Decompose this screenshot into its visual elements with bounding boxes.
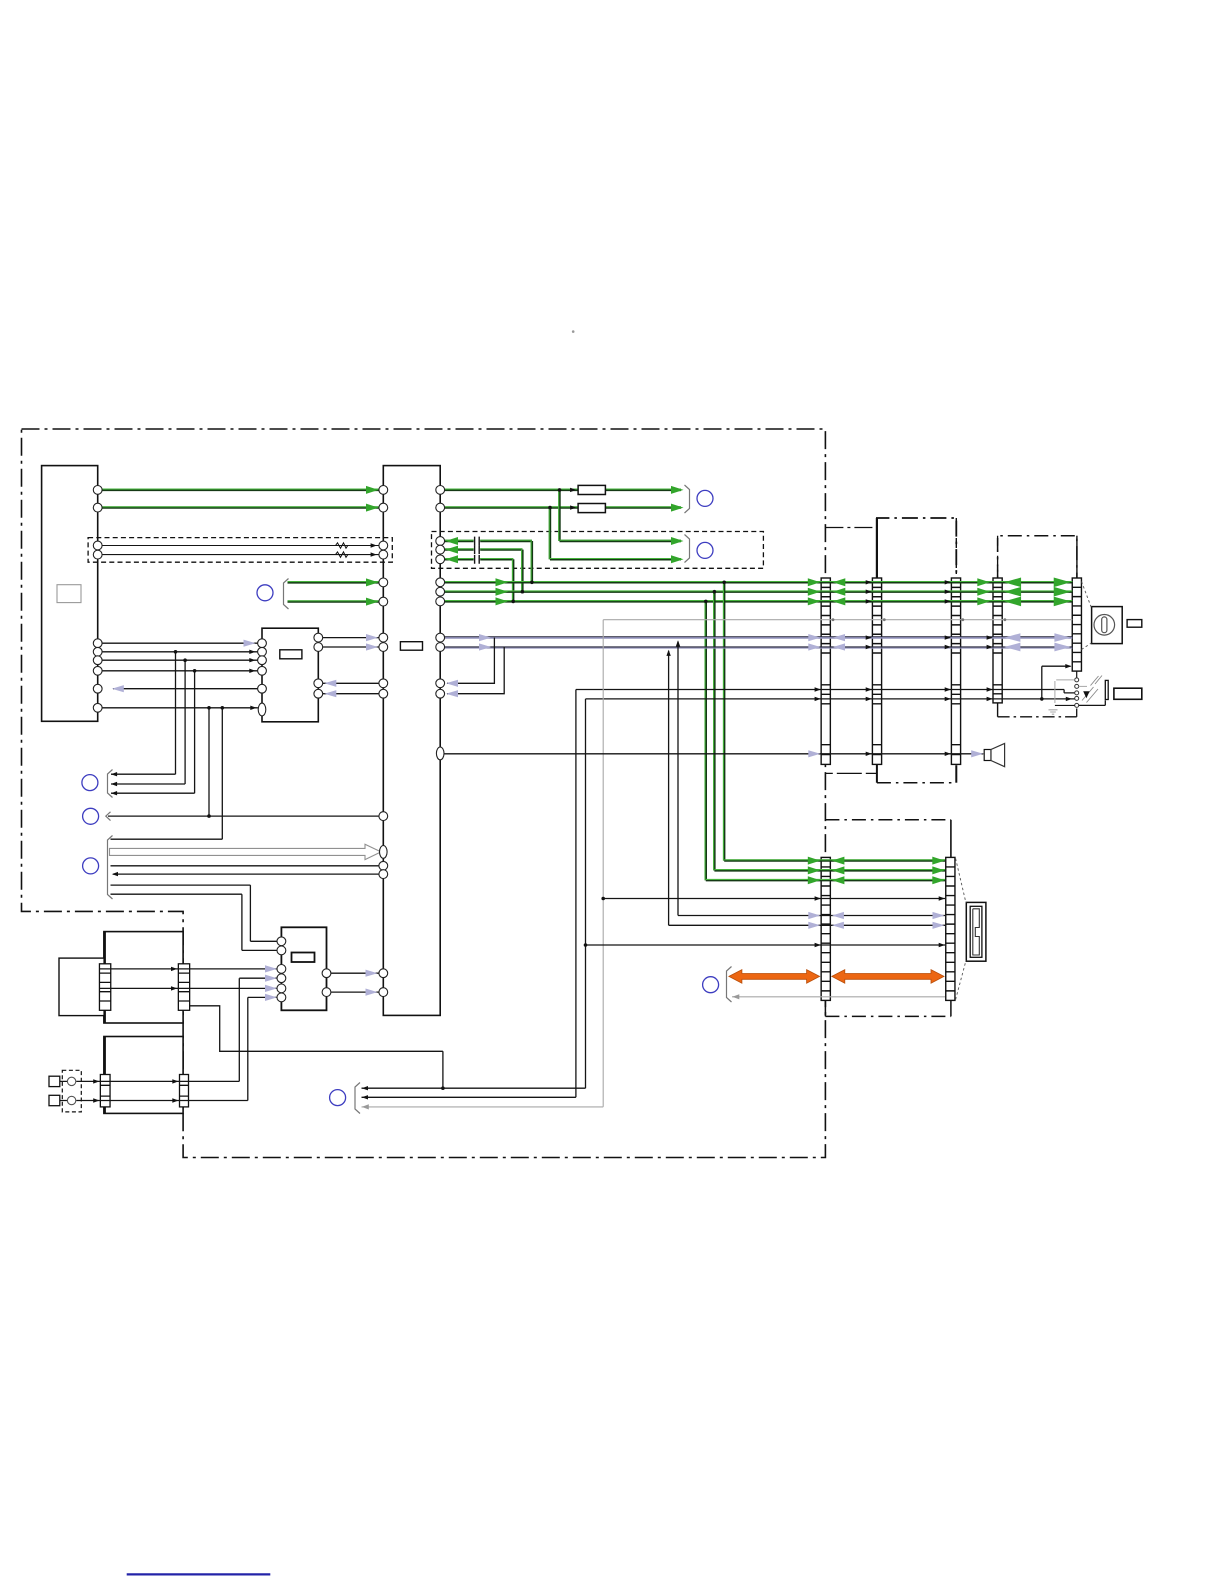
headphone jack icon — [1092, 607, 1123, 644]
wire AC6 — [100, 707, 258, 709]
wire green K2 — [288, 600, 381, 602]
wire loopback 1 — [447, 638, 494, 684]
wire jack net2 — [586, 698, 1075, 700]
up arrows on loop wires — [676, 640, 680, 646]
wire E strip link — [190, 1006, 443, 1088]
capacitor C2 — [475, 545, 480, 554]
wire green cap2 — [443, 548, 474, 550]
probe circle X — [697, 542, 713, 558]
IC block A — [42, 466, 98, 722]
wire green low2 — [714, 869, 945, 871]
wire AC1 — [100, 642, 258, 644]
wire green down1 — [723, 582, 725, 860]
wire lavender bus2 — [443, 646, 1072, 648]
pins box A — [93, 486, 102, 495]
plug square 1 — [49, 1076, 60, 1086]
connector column CN2 — [872, 578, 881, 764]
wire J1 — [362, 1087, 586, 1089]
plug small rect — [1127, 620, 1142, 628]
dotted link CN5-jack — [1082, 582, 1092, 608]
memory card icon — [966, 902, 986, 961]
plug circles G — [67, 1077, 75, 1085]
wire green cap3 — [443, 558, 474, 560]
pins block D left — [277, 937, 286, 946]
probe circle W — [697, 490, 713, 506]
hollow arrow wire — [110, 844, 382, 859]
bracket W — [685, 485, 690, 513]
lower board outline — [825, 819, 951, 821]
wire lavender bus1 — [443, 636, 1072, 638]
connector column CNB — [946, 857, 955, 1000]
wire T-drop 222 — [221, 708, 223, 839]
wire lower lav2 — [669, 651, 945, 926]
gray arrows — [362, 1104, 369, 1109]
wire AC2 — [100, 651, 258, 653]
block D — [281, 927, 326, 1010]
wire green low1 — [724, 859, 945, 861]
dashed box 2 — [432, 532, 764, 569]
wire lower net3 — [586, 944, 946, 946]
junction dots — [558, 488, 562, 492]
orange arrow 2 — [832, 970, 944, 984]
wire vertical V1 — [575, 690, 577, 1098]
wire speaker net — [444, 753, 983, 755]
wire green A1 — [100, 489, 380, 491]
orange arrow 1 — [729, 970, 820, 984]
main board outline — [22, 429, 826, 1158]
probe circle E — [82, 775, 98, 791]
wire F6 — [111, 894, 279, 950]
connector column CNA — [821, 857, 830, 1000]
resistor R1 — [578, 485, 605, 494]
connector column CN1 — [876, 518, 878, 579]
dashed box 1 — [88, 538, 392, 563]
small black arrows — [371, 543, 377, 547]
capacitor C3 — [475, 555, 480, 564]
wire F5 — [111, 885, 279, 941]
wire green bus3 — [443, 600, 1072, 602]
middle board outline — [877, 518, 956, 579]
wire T-drop 209 — [208, 708, 210, 816]
wire green low3 — [706, 879, 945, 881]
stray dot — [572, 330, 575, 333]
pins box B left — [379, 486, 388, 495]
capacitor C1 — [475, 537, 480, 546]
jack board outline — [998, 536, 1077, 579]
wire green down2 — [713, 592, 715, 871]
wire J3 gray — [362, 1106, 604, 1108]
connector strip G right — [180, 1075, 189, 1107]
wire green B1 out — [443, 489, 578, 491]
connector strip E left — [99, 964, 110, 1011]
probe circle F — [83, 858, 99, 874]
wire DB1 — [331, 972, 380, 974]
connector column CN4 — [993, 578, 1002, 703]
wire jack net1 — [576, 690, 1075, 693]
pins block D right — [322, 969, 331, 978]
probe circle K — [257, 585, 273, 601]
block B inner rect — [400, 642, 422, 651]
wire G1 — [60, 1080, 240, 1082]
pins block C left — [258, 639, 267, 648]
wire vertical V2 — [585, 699, 587, 1088]
wire green drop2 — [549, 508, 551, 560]
wire ED1 — [100, 968, 278, 970]
plug square 2 — [49, 1095, 60, 1105]
lavender arrows — [244, 640, 256, 647]
probe circle Y — [703, 977, 719, 993]
wire F4 — [113, 873, 380, 875]
wire CB1 — [323, 637, 380, 639]
oval pin B right — [436, 747, 444, 760]
wire D6 down — [248, 997, 278, 1100]
wire green cap1 — [443, 540, 474, 542]
plug rect big — [1114, 688, 1142, 699]
connector strip G left — [100, 1075, 110, 1107]
wire CB4 — [323, 693, 380, 695]
board link line top — [825, 527, 877, 529]
jack outline — [1079, 700, 1106, 705]
connector column CN3 — [951, 578, 960, 764]
block C — [262, 628, 318, 722]
wire E2 — [111, 660, 185, 784]
green arrows — [366, 486, 379, 494]
wire ED2 — [100, 987, 278, 989]
wire J2 — [362, 1096, 576, 1098]
bracket Y — [727, 967, 732, 1003]
bracket J — [355, 1083, 360, 1114]
connector strip E right — [178, 964, 189, 1011]
wire AC5 — [113, 688, 258, 690]
main vertical board/bus block B — [383, 466, 440, 1016]
wire AC4 — [100, 670, 258, 672]
ground — [1049, 710, 1058, 714]
wire gray top — [603, 619, 1072, 621]
wire green down3 — [705, 601, 707, 880]
wire CB3 — [323, 682, 380, 684]
wire F1 — [111, 838, 223, 840]
wire gray riser — [602, 620, 604, 1107]
pins box B right — [436, 486, 445, 495]
wire dashed pair 2 — [100, 554, 380, 556]
resistor R2 — [578, 504, 605, 513]
wire AC3 — [100, 659, 258, 661]
wire loopback 2 — [447, 647, 504, 694]
block E2 — [59, 958, 104, 1016]
bracket X — [685, 535, 690, 563]
jack assembly — [1076, 671, 1078, 678]
oval pin C — [258, 703, 266, 716]
wire dashed pair 1 — [100, 545, 380, 547]
wire DB2 — [331, 991, 380, 993]
wire E1 — [111, 652, 176, 774]
switch contacts — [1079, 685, 1087, 687]
block G (external unit) — [104, 1037, 183, 1114]
oval pin B left — [380, 846, 388, 859]
wire green drop1 — [558, 490, 560, 541]
zigzag 1 — [336, 543, 348, 548]
wire G2 — [60, 1100, 248, 1102]
wire E3 — [111, 671, 195, 793]
pins block C right — [314, 633, 323, 642]
connector column CN5 — [1072, 578, 1081, 671]
board link line — [826, 772, 877, 774]
wire green B2 out — [443, 506, 578, 508]
speaker icon — [984, 750, 991, 761]
wire F3 — [111, 865, 381, 867]
wire jack branch to CN5 — [1042, 666, 1071, 699]
bracket K — [284, 579, 289, 610]
wire gray Y — [732, 996, 945, 998]
dashed box G — [62, 1070, 81, 1112]
blue footer line — [127, 1573, 271, 1575]
wire mech net — [603, 898, 945, 900]
bracket single — [106, 812, 111, 821]
wire CB2 — [323, 646, 380, 648]
probe circle J — [330, 1090, 346, 1106]
wire green bus2 — [443, 591, 1072, 593]
wire green K1 — [288, 581, 381, 583]
plug tip triangle — [1083, 691, 1089, 698]
bracket E — [108, 770, 113, 798]
zigzag 2 — [336, 552, 348, 557]
jack bar — [1105, 680, 1108, 699]
wire D4 down — [239, 978, 278, 1081]
dotted link CNB-icon — [956, 859, 966, 904]
wire green bus1 — [443, 581, 1072, 583]
wire single 816 — [108, 815, 380, 817]
bracket F — [108, 836, 113, 900]
block E (external unit) — [104, 932, 183, 1023]
wire green A2 — [100, 506, 380, 508]
probe circle 2 — [83, 808, 99, 824]
wire lower lav1 — [678, 642, 945, 916]
